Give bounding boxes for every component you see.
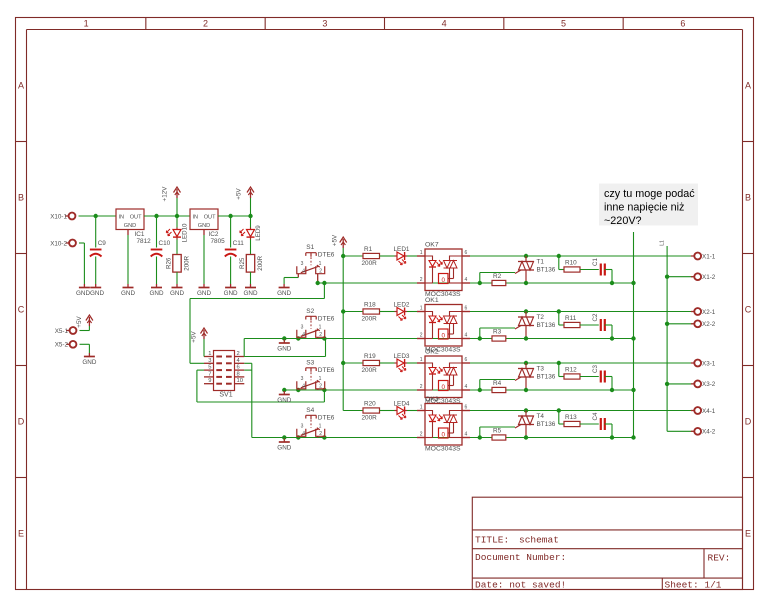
svg-text:6: 6 — [465, 405, 468, 411]
svg-text:GND: GND — [277, 445, 291, 452]
svg-text:T4: T4 — [537, 413, 545, 420]
svg-text:3: 3 — [301, 424, 304, 430]
svg-text:4: 4 — [442, 19, 447, 29]
svg-text:2: 2 — [319, 431, 322, 437]
svg-text:10: 10 — [237, 378, 243, 384]
svg-text:6: 6 — [465, 306, 468, 312]
svg-text:GNDGND: GNDGND — [76, 290, 104, 297]
svg-text:7812: 7812 — [137, 238, 152, 245]
svg-text:S2: S2 — [306, 308, 314, 315]
svg-text:200R: 200R — [362, 260, 378, 267]
svg-text:GND: GND — [170, 290, 184, 297]
svg-text:R11: R11 — [565, 315, 577, 322]
svg-text:OK7: OK7 — [425, 242, 439, 249]
svg-text:C9: C9 — [98, 240, 107, 247]
svg-text:X10-1: X10-1 — [50, 213, 67, 220]
svg-text:200R: 200R — [362, 367, 378, 374]
svg-text:S1: S1 — [306, 244, 314, 251]
svg-text:R18: R18 — [364, 302, 376, 309]
svg-text:+12V: +12V — [162, 186, 169, 202]
svg-text:0: 0 — [441, 277, 445, 284]
svg-text:OK3: OK3 — [425, 396, 439, 403]
svg-text:7805: 7805 — [211, 238, 226, 245]
svg-text:X3-1: X3-1 — [702, 360, 716, 367]
svg-text:OK1: OK1 — [425, 297, 439, 304]
svg-text:C11: C11 — [233, 240, 245, 247]
svg-text:R19: R19 — [364, 353, 376, 360]
svg-text:4: 4 — [465, 432, 468, 438]
svg-text:GND: GND — [124, 223, 136, 229]
svg-text:2: 2 — [319, 269, 322, 275]
svg-text:GND: GND — [277, 346, 291, 353]
svg-text:6: 6 — [465, 357, 468, 363]
svg-text:inne napięcie niż: inne napięcie niż — [604, 202, 684, 214]
svg-text:1: 1 — [319, 424, 322, 430]
svg-text:1: 1 — [208, 351, 211, 357]
svg-text:2: 2 — [203, 19, 208, 29]
svg-text:2: 2 — [420, 277, 423, 283]
svg-text:0: 0 — [441, 431, 445, 438]
svg-text:2: 2 — [237, 351, 240, 357]
svg-text:~220V?: ~220V? — [604, 215, 642, 227]
svg-text:GND: GND — [82, 359, 96, 366]
svg-text:IN: IN — [119, 214, 125, 220]
svg-text:B: B — [18, 193, 24, 203]
svg-text:C: C — [18, 305, 25, 315]
svg-text:3: 3 — [322, 19, 327, 29]
svg-text:DTE6: DTE6 — [318, 252, 335, 259]
svg-text:T1: T1 — [537, 259, 545, 266]
svg-text:LED4: LED4 — [394, 401, 410, 408]
svg-text:8: 8 — [237, 371, 240, 377]
svg-text:R10: R10 — [565, 260, 577, 267]
svg-text:4: 4 — [302, 431, 305, 437]
svg-text:2: 2 — [420, 432, 423, 438]
svg-text:LED1: LED1 — [394, 246, 410, 253]
svg-text:TITLE:: TITLE: — [475, 535, 509, 546]
svg-text:R20: R20 — [364, 401, 376, 408]
svg-text:IC2: IC2 — [209, 231, 219, 238]
svg-text:Document Number:: Document Number: — [475, 552, 566, 563]
svg-text:200R: 200R — [184, 255, 191, 270]
svg-text:OK2: OK2 — [425, 349, 439, 356]
svg-text:DTE6: DTE6 — [318, 367, 335, 374]
svg-text:2: 2 — [420, 384, 423, 390]
svg-text:E: E — [18, 529, 24, 539]
svg-text:L1: L1 — [660, 240, 666, 246]
svg-text:1: 1 — [319, 261, 322, 267]
svg-text:X3-2: X3-2 — [702, 381, 716, 388]
svg-text:R12: R12 — [565, 367, 577, 374]
svg-text:4: 4 — [465, 277, 468, 283]
svg-text:DTE6: DTE6 — [318, 414, 335, 421]
svg-text:4: 4 — [465, 384, 468, 390]
svg-text:S4: S4 — [306, 407, 314, 414]
svg-text:X2-2: X2-2 — [702, 321, 716, 328]
svg-text:7: 7 — [208, 371, 211, 377]
svg-text:200R: 200R — [362, 414, 378, 421]
svg-text:Sheet: 1/1: Sheet: 1/1 — [665, 580, 722, 591]
svg-text:1: 1 — [319, 325, 322, 331]
svg-text:X10-2: X10-2 — [50, 240, 67, 247]
svg-text:4: 4 — [302, 269, 305, 275]
svg-text:OUT: OUT — [204, 214, 216, 220]
svg-text:D: D — [18, 417, 25, 427]
svg-text:Date: not saved!: Date: not saved! — [475, 580, 566, 591]
svg-text:T3: T3 — [537, 366, 545, 373]
svg-text:E: E — [745, 529, 751, 539]
svg-text:A: A — [18, 81, 24, 91]
svg-text:0: 0 — [441, 384, 445, 391]
svg-text:B: B — [745, 193, 751, 203]
svg-text:5: 5 — [561, 19, 566, 29]
svg-text:R1: R1 — [364, 246, 373, 253]
svg-text:1: 1 — [420, 405, 423, 411]
svg-text:X5-2: X5-2 — [55, 342, 69, 349]
svg-text:R25: R25 — [239, 257, 246, 269]
svg-text:1: 1 — [319, 376, 322, 382]
svg-text:czy tu moge podać: czy tu moge podać — [604, 188, 695, 200]
svg-text:R2: R2 — [493, 273, 502, 280]
svg-text:200R: 200R — [362, 315, 378, 322]
svg-text:A: A — [745, 81, 751, 91]
svg-text:3: 3 — [301, 325, 304, 331]
svg-text:IC1: IC1 — [135, 231, 145, 238]
svg-text:GND: GND — [121, 290, 135, 297]
svg-text:X1-2: X1-2 — [702, 274, 716, 281]
svg-text:X1-1: X1-1 — [702, 253, 716, 260]
svg-text:R26: R26 — [166, 257, 173, 269]
svg-text:1: 1 — [420, 306, 423, 312]
svg-text:GND: GND — [277, 290, 291, 297]
svg-text:MOC3043S: MOC3043S — [425, 446, 461, 453]
svg-text:1: 1 — [420, 250, 423, 256]
svg-text:DTE6: DTE6 — [318, 315, 335, 322]
svg-text:S3: S3 — [306, 359, 314, 366]
svg-text:LED2: LED2 — [394, 302, 410, 309]
svg-text:C1: C1 — [592, 257, 599, 265]
svg-text:+5V: +5V — [191, 331, 198, 343]
svg-text:REV:: REV: — [708, 553, 731, 564]
svg-text:BT136: BT136 — [537, 374, 556, 381]
svg-text:+5V: +5V — [76, 316, 83, 328]
svg-text:6: 6 — [680, 19, 685, 29]
svg-text:schemat: schemat — [519, 535, 559, 546]
svg-text:SV1: SV1 — [219, 392, 232, 399]
svg-text:1: 1 — [84, 19, 89, 29]
svg-text:4: 4 — [302, 384, 305, 390]
svg-text:C10: C10 — [159, 240, 171, 247]
svg-text:LED9: LED9 — [255, 225, 262, 241]
svg-text:LED3: LED3 — [394, 353, 410, 360]
svg-text:6: 6 — [465, 250, 468, 256]
svg-text:X5-1: X5-1 — [55, 328, 69, 335]
svg-text:1: 1 — [420, 357, 423, 363]
svg-text:X2-1: X2-1 — [702, 309, 716, 316]
svg-text:X4-2: X4-2 — [702, 429, 716, 436]
svg-text:R3: R3 — [493, 329, 502, 336]
svg-text:D: D — [745, 417, 752, 427]
svg-text:T2: T2 — [537, 314, 545, 321]
svg-text:2: 2 — [319, 332, 322, 338]
svg-text:5: 5 — [208, 365, 211, 371]
svg-text:BT136: BT136 — [537, 267, 556, 274]
svg-text:GND: GND — [244, 290, 258, 297]
svg-text:BT136: BT136 — [537, 421, 556, 428]
svg-text:BT136: BT136 — [537, 322, 556, 329]
svg-text:LED10: LED10 — [182, 223, 189, 242]
svg-text:R13: R13 — [565, 414, 577, 421]
svg-text:R4: R4 — [493, 380, 502, 387]
svg-text:3: 3 — [301, 261, 304, 267]
svg-text:X4-1: X4-1 — [702, 408, 716, 415]
svg-text:9: 9 — [208, 378, 211, 384]
svg-text:R5: R5 — [493, 428, 502, 435]
svg-text:GND: GND — [150, 290, 164, 297]
svg-text:C4: C4 — [592, 412, 599, 420]
svg-text:4: 4 — [302, 332, 305, 338]
svg-text:4: 4 — [465, 333, 468, 339]
svg-text:GND: GND — [197, 290, 211, 297]
svg-text:3: 3 — [208, 358, 211, 364]
svg-text:6: 6 — [237, 365, 240, 371]
svg-text:+5V: +5V — [236, 188, 243, 200]
svg-text:C2: C2 — [592, 313, 599, 321]
svg-text:OUT: OUT — [130, 214, 142, 220]
svg-text:GND: GND — [224, 290, 238, 297]
svg-text:0: 0 — [441, 332, 445, 339]
svg-text:+5V: +5V — [332, 234, 339, 246]
svg-text:GND: GND — [198, 223, 210, 229]
svg-text:200R: 200R — [257, 255, 264, 270]
svg-text:2: 2 — [319, 384, 322, 390]
svg-text:IN: IN — [193, 214, 199, 220]
svg-text:2: 2 — [420, 333, 423, 339]
svg-text:C3: C3 — [592, 364, 599, 372]
svg-text:GND: GND — [277, 397, 291, 404]
svg-text:C: C — [745, 305, 752, 315]
svg-text:3: 3 — [301, 376, 304, 382]
